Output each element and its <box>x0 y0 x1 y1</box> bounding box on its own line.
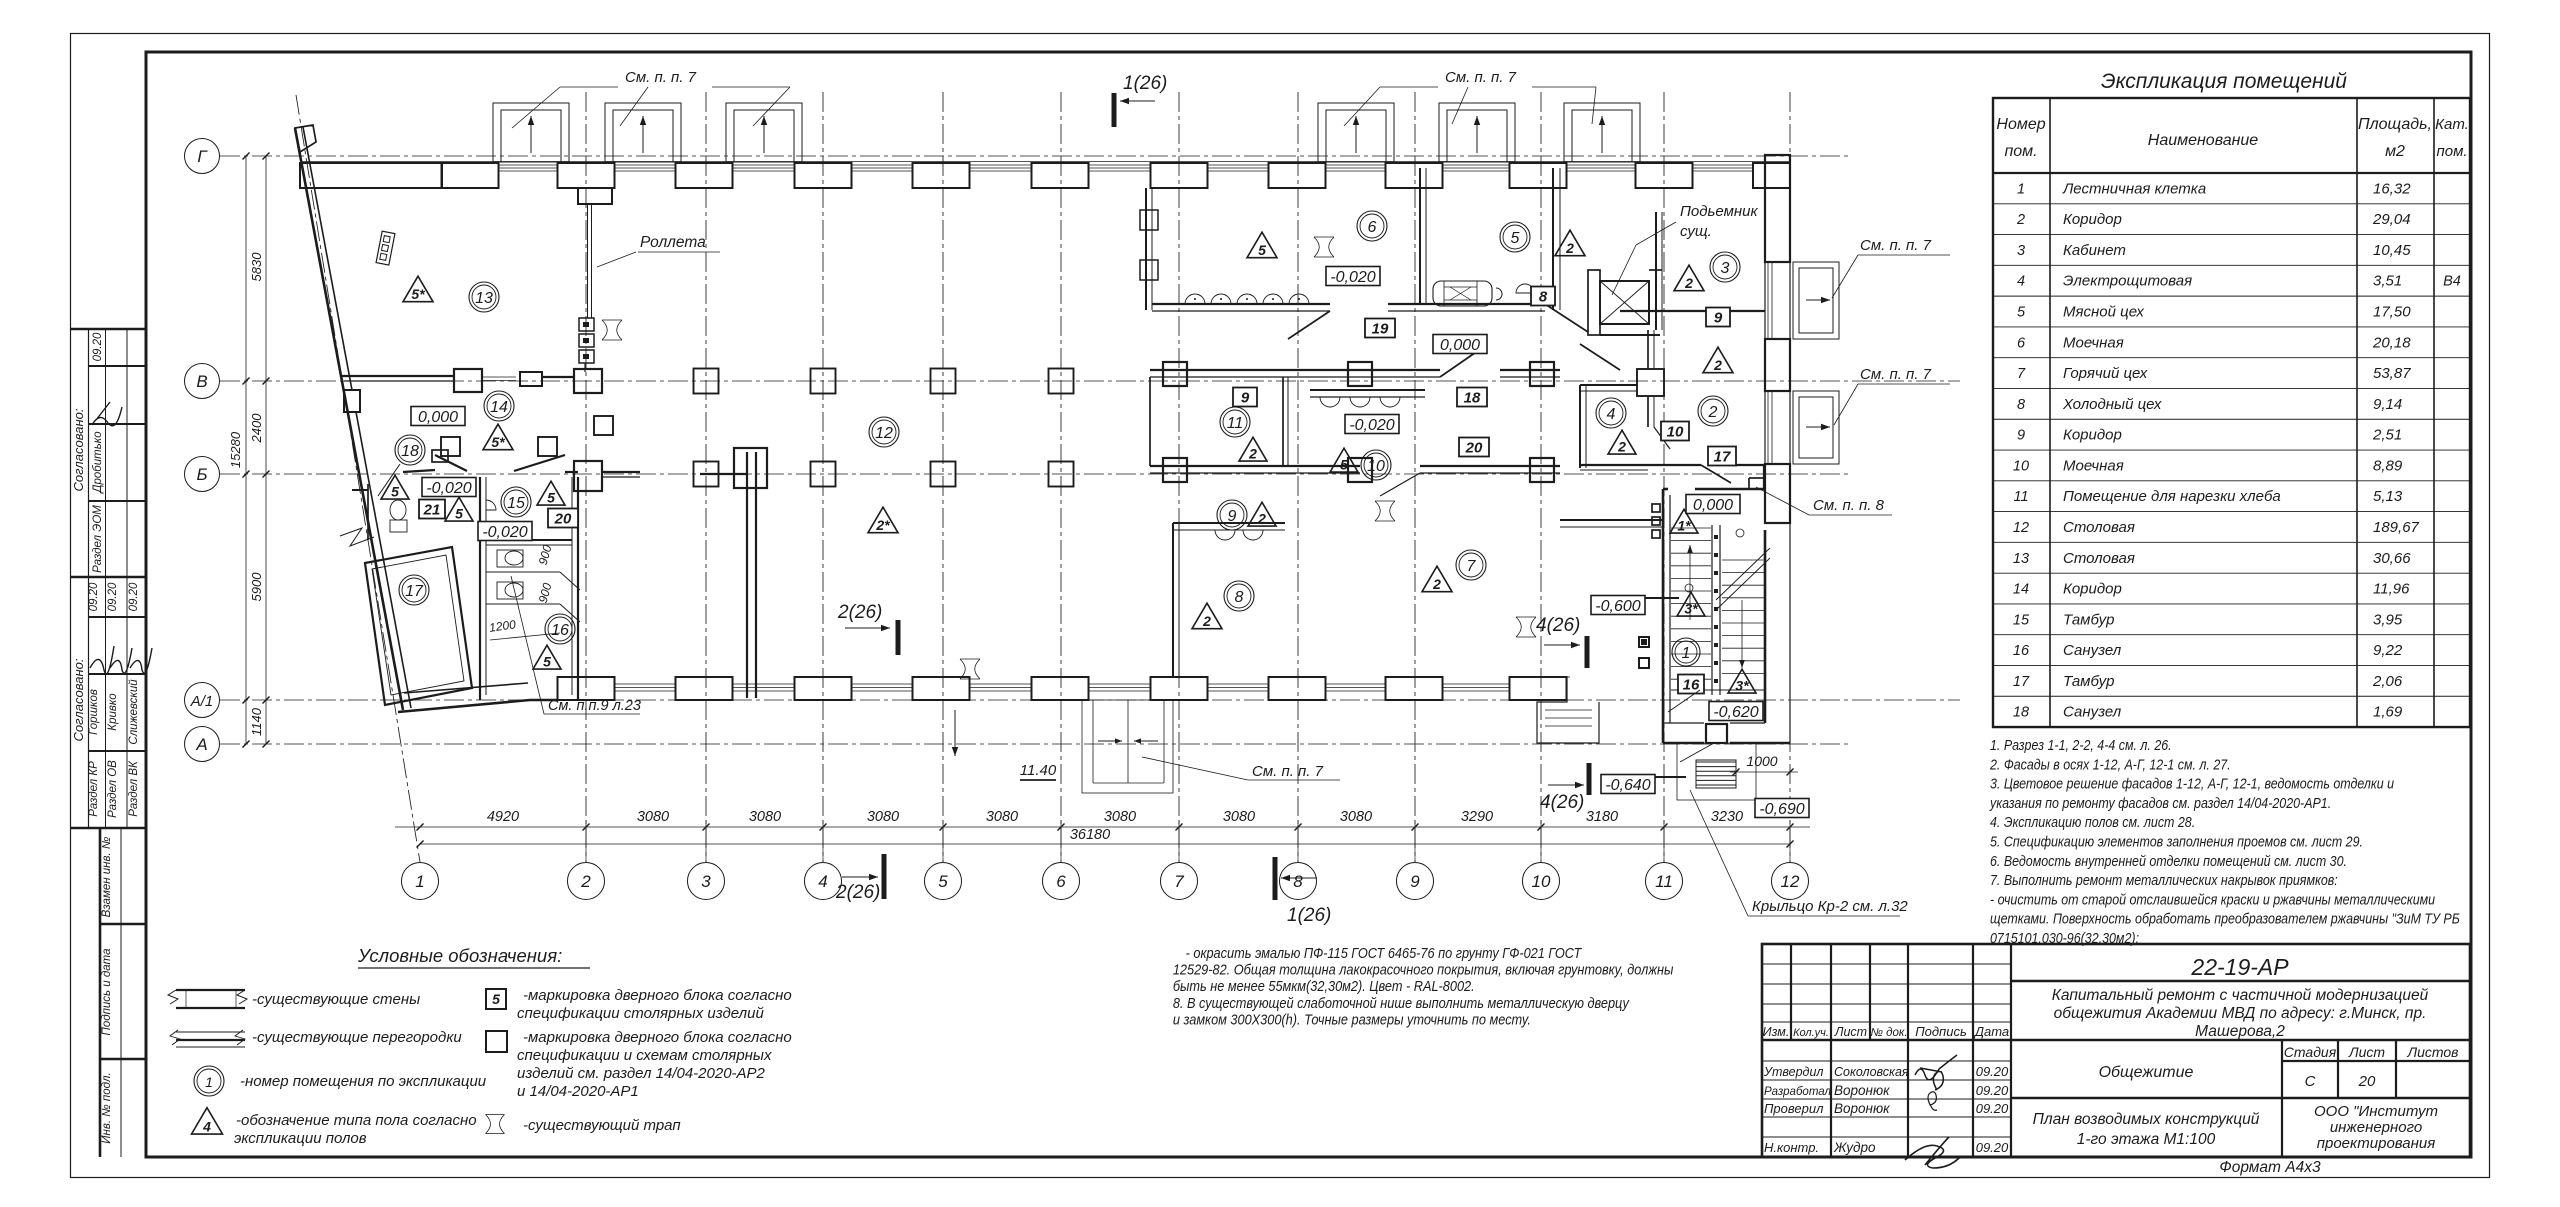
svg-text:9: 9 <box>1241 389 1250 406</box>
svg-text:9: 9 <box>1410 872 1420 891</box>
svg-text:16: 16 <box>551 622 569 639</box>
svg-text:изделий см. раздел 14/04-2020-: изделий см. раздел 14/04-2020-АР2 <box>517 1065 766 1082</box>
svg-text:№ док.: № док. <box>1870 1027 1907 1039</box>
svg-text:2: 2 <box>1565 240 1574 256</box>
svg-text:Раздел ОВ: Раздел ОВ <box>107 760 119 818</box>
svg-text:Условные обозначения:: Условные обозначения: <box>357 945 562 966</box>
svg-text:Крыльцо Кр-2 см. л.32: Крыльцо Кр-2 см. л.32 <box>1752 898 1908 915</box>
svg-text:2(26): 2(26) <box>835 882 880 903</box>
svg-text:0,000: 0,000 <box>1440 337 1480 354</box>
svg-text:Помещение для нарезки хлеба: Помещение для нарезки хлеба <box>2063 488 2281 505</box>
svg-text:2: 2 <box>1617 439 1626 455</box>
svg-text:17,50: 17,50 <box>2373 304 2411 321</box>
svg-text:4920: 4920 <box>487 809 519 825</box>
svg-text:2: 2 <box>1248 446 1257 462</box>
svg-text:-0,020: -0,020 <box>1349 417 1394 434</box>
svg-text:5: 5 <box>938 872 948 891</box>
svg-text:Воронюк: Воронюк <box>1834 1083 1890 1098</box>
svg-text:-обозначение типа пола согласн: -обозначение типа пола согласно <box>236 1112 477 1129</box>
svg-text:13: 13 <box>475 290 493 307</box>
svg-text:В4: В4 <box>2443 274 2461 290</box>
svg-text:Утвердил: Утвердил <box>1763 1065 1823 1079</box>
svg-text:3080: 3080 <box>1340 809 1372 825</box>
svg-text:См. п. п. 7: См. п. п. 7 <box>625 69 697 86</box>
svg-text:Санузел: Санузел <box>2063 704 2122 721</box>
svg-text:Подпись и дата: Подпись и дата <box>101 949 113 1036</box>
svg-text:20,18: 20,18 <box>2372 334 2411 351</box>
svg-text:3080: 3080 <box>867 809 899 825</box>
svg-text:8: 8 <box>1539 288 1548 305</box>
svg-text:1: 1 <box>1682 645 1691 662</box>
svg-text:См. п. п. 7: См. п. п. 7 <box>1860 366 1932 383</box>
svg-text:План возводимых конструкций: План возводимых конструкций <box>2033 1111 2260 1128</box>
svg-text:7: 7 <box>1174 872 1184 891</box>
svg-text:3290: 3290 <box>1461 809 1493 825</box>
svg-text:10: 10 <box>1367 458 1385 475</box>
svg-text:1140: 1140 <box>249 707 264 736</box>
svg-text:2400: 2400 <box>249 413 264 444</box>
svg-text:4(26): 4(26) <box>1540 792 1584 813</box>
svg-text:17: 17 <box>2013 674 2030 690</box>
svg-text:2(26): 2(26) <box>837 602 882 623</box>
svg-text:5: 5 <box>1511 230 1520 247</box>
svg-text:8,89: 8,89 <box>2373 457 2403 474</box>
svg-text:4: 4 <box>818 872 827 891</box>
svg-text:09.20: 09.20 <box>1976 1140 2009 1155</box>
svg-text:Машерова,2: Машерова,2 <box>2195 1023 2285 1040</box>
svg-text:- очистить от старой отслаивше: - очистить от старой отслаившейся краски… <box>1990 890 2435 907</box>
svg-text:Общежитие: Общежитие <box>2099 1064 2194 1081</box>
svg-text:10,45: 10,45 <box>2373 242 2411 259</box>
svg-text:-0,020: -0,020 <box>426 480 471 497</box>
svg-text:Согласовано:: Согласовано: <box>71 658 86 741</box>
svg-text:Кривко: Кривко <box>107 693 119 731</box>
svg-text:3: 3 <box>2017 243 2025 259</box>
svg-text:4: 4 <box>202 1118 211 1134</box>
svg-text:инженерного: инженерного <box>2330 1119 2422 1136</box>
svg-text:Подпись: Подпись <box>1915 1024 1967 1039</box>
svg-text:В: В <box>196 372 207 391</box>
svg-text:2: 2 <box>1257 511 1266 527</box>
svg-text:11: 11 <box>1227 415 1244 432</box>
svg-text:Раздел ЭОМ: Раздел ЭОМ <box>92 505 104 573</box>
svg-text:и 14/04-2020-АР1: и 14/04-2020-АР1 <box>517 1083 639 1100</box>
svg-text:Тамбур: Тамбур <box>2063 611 2114 628</box>
svg-text:-существующий трап: -существующий трап <box>523 1117 681 1134</box>
svg-text:9: 9 <box>1714 309 1723 326</box>
svg-text:1(26): 1(26) <box>1123 73 1167 94</box>
svg-text:53,87: 53,87 <box>2373 365 2411 382</box>
svg-text:и замком 300X300(h). Точные ра: и замком 300X300(h). Точные размеры уточ… <box>1173 1010 1531 1027</box>
svg-text:9: 9 <box>2017 428 2025 444</box>
svg-text:09.20: 09.20 <box>88 582 100 611</box>
svg-text:18: 18 <box>401 443 419 460</box>
svg-text:3,51: 3,51 <box>2373 273 2402 290</box>
svg-text:5900: 5900 <box>249 572 264 602</box>
svg-text:7: 7 <box>1467 558 1477 575</box>
svg-text:2: 2 <box>1202 613 1211 629</box>
svg-text:4: 4 <box>2017 274 2025 290</box>
svg-text:30,66: 30,66 <box>2373 550 2411 567</box>
svg-text:быть не менее 55мкм(32,30м2).: быть не менее 55мкм(32,30м2). Цвет - RAL… <box>1173 977 1475 994</box>
svg-text:-существующие перегородки: -существующие перегородки <box>252 1029 462 1046</box>
svg-text:-0,620: -0,620 <box>1713 704 1758 721</box>
svg-text:Согласовано:: Согласовано: <box>71 408 86 491</box>
svg-text:20: 20 <box>1465 439 1483 456</box>
svg-text:12: 12 <box>1781 872 1800 891</box>
svg-text:14: 14 <box>490 399 508 416</box>
svg-text:0,000: 0,000 <box>1693 497 1733 514</box>
svg-text:11.40: 11.40 <box>1020 762 1057 779</box>
svg-text:Холодный цех: Холодный цех <box>2062 396 2162 413</box>
svg-text:-маркировка дверного блока сог: -маркировка дверного блока согласно <box>523 987 792 1004</box>
svg-text:Экспликация помещений: Экспликация помещений <box>2101 70 2347 93</box>
svg-text:3: 3 <box>1721 260 1730 277</box>
svg-text:спецификации и схемам столярны: спецификации и схемам столярных <box>517 1047 772 1064</box>
svg-text:Мясной цех: Мясной цех <box>2063 304 2144 321</box>
svg-text:6: 6 <box>1368 219 1377 236</box>
svg-text:5. Спецификацию элементов запо: 5. Спецификацию элементов заполнения про… <box>1990 832 2363 849</box>
svg-text:1: 1 <box>415 872 424 891</box>
svg-text:15: 15 <box>507 495 525 512</box>
svg-text:Воронюк: Воронюк <box>1834 1101 1890 1116</box>
svg-text:С: С <box>2305 1073 2316 1090</box>
svg-text:См. п.п.9 л.23: См. п.п.9 л.23 <box>548 698 641 714</box>
svg-text:- окрасить эмалью ПФ-115 ГОСТ: - окрасить эмалью ПФ-115 ГОСТ 6465-76 по… <box>1186 944 1583 961</box>
svg-text:-номер помещения по экспликаци: -номер помещения по экспликации <box>240 1073 487 1090</box>
svg-text:Б: Б <box>196 465 207 484</box>
svg-text:проектирования: проектирования <box>2317 1135 2436 1152</box>
svg-text:2: 2 <box>1684 275 1693 291</box>
svg-text:3. Цветовое решение фасадов 1-: 3. Цветовое решение фасадов 1-12, А-Г, 1… <box>1990 774 2394 791</box>
svg-text:5: 5 <box>2017 305 2026 321</box>
svg-text:Раздел ВК: Раздел ВК <box>128 760 140 817</box>
svg-text:19: 19 <box>1372 320 1389 337</box>
svg-text:09.20: 09.20 <box>1976 1083 2009 1098</box>
svg-text:Горячий цех: Горячий цех <box>2063 365 2148 382</box>
svg-text:1,69: 1,69 <box>2373 704 2403 721</box>
svg-text:17: 17 <box>405 583 424 600</box>
svg-text:ООО "Институт: ООО "Институт <box>2314 1103 2438 1120</box>
svg-text:8: 8 <box>2017 397 2025 413</box>
svg-text:Санузел: Санузел <box>2063 642 2122 659</box>
svg-text:13: 13 <box>2013 551 2029 567</box>
svg-text:5: 5 <box>1258 242 1266 258</box>
svg-text:12529-82. Общая толщина лакокр: 12529-82. Общая толщина лакокрасочного п… <box>1173 961 1674 978</box>
svg-text:16: 16 <box>1683 676 1700 693</box>
svg-text:Дробитько: Дробитько <box>92 431 104 495</box>
svg-text:09.20: 09.20 <box>92 332 104 361</box>
svg-text:3080: 3080 <box>1104 809 1136 825</box>
svg-text:А/1: А/1 <box>190 693 214 710</box>
svg-text:5: 5 <box>1340 457 1348 473</box>
svg-text:Соколовская: Соколовская <box>1834 1065 1909 1079</box>
svg-text:-существующие стены: -существующие стены <box>252 991 420 1008</box>
svg-text:3080: 3080 <box>986 809 1018 825</box>
svg-text:3080: 3080 <box>749 809 781 825</box>
svg-text:Кабинет: Кабинет <box>2063 242 2126 259</box>
svg-text:3*: 3* <box>1684 601 1698 617</box>
svg-text:5: 5 <box>455 506 463 522</box>
svg-text:20: 20 <box>554 510 572 527</box>
svg-text:2*: 2* <box>875 517 890 533</box>
svg-text:189,67: 189,67 <box>2373 519 2420 536</box>
svg-text:Лист: Лист <box>1834 1025 1867 1039</box>
svg-text:3*: 3* <box>1735 678 1749 694</box>
svg-text:общежития Академии МВД по адре: общежития Академии МВД по адресу: г.Минс… <box>2054 1005 2427 1022</box>
svg-text:0,000: 0,000 <box>418 409 458 426</box>
svg-text:1000: 1000 <box>1746 753 1777 769</box>
svg-text:Разработал: Разработал <box>1764 1086 1832 1098</box>
svg-text:Капитальный ремонт с частичной: Капитальный ремонт с частичной модерниза… <box>2052 987 2429 1004</box>
svg-text:5830: 5830 <box>249 252 264 282</box>
svg-text:5: 5 <box>492 991 500 1007</box>
svg-text:Стадия: Стадия <box>2284 1044 2337 1060</box>
svg-text:8: 8 <box>1293 872 1303 891</box>
svg-text:2,06: 2,06 <box>2372 673 2403 690</box>
svg-text:9,22: 9,22 <box>2373 642 2403 659</box>
svg-text:1*: 1* <box>1677 518 1691 534</box>
svg-text:-0,020: -0,020 <box>482 524 527 541</box>
svg-text:Подьемник: Подьемник <box>1680 203 1758 220</box>
svg-text:6. Ведомость внутренней отделк: 6. Ведомость внутренней отделки помещени… <box>1990 852 2347 869</box>
svg-text:Моечная: Моечная <box>2063 457 2124 474</box>
svg-text:14: 14 <box>2013 582 2029 598</box>
svg-text:Коридор: Коридор <box>2063 581 2122 598</box>
svg-text:пом.: пом. <box>2436 143 2467 160</box>
svg-text:щетками. Поверхность обработат: щетками. Поверхность обработать преобраз… <box>1990 909 2460 926</box>
svg-text:12: 12 <box>2013 520 2029 536</box>
svg-text:м2: м2 <box>2385 143 2405 160</box>
svg-text:09.20: 09.20 <box>1976 1101 2009 1116</box>
svg-text:-0,600: -0,600 <box>1595 598 1640 615</box>
svg-text:18: 18 <box>2013 705 2029 721</box>
svg-text:3230: 3230 <box>1711 809 1743 825</box>
svg-text:-0,020: -0,020 <box>1330 269 1375 286</box>
svg-text:-0,690: -0,690 <box>1759 801 1804 818</box>
svg-text:12: 12 <box>875 425 893 442</box>
svg-text:А: А <box>195 735 207 754</box>
svg-text:15280: 15280 <box>228 431 243 468</box>
svg-text:20: 20 <box>2358 1073 2376 1090</box>
svg-text:4. Экспликацию полов см. лист: 4. Экспликацию полов см. лист 28. <box>1990 813 2195 830</box>
svg-text:Кат.: Кат. <box>2435 116 2469 133</box>
svg-text:2. Фасады в осях 1-12, А-Г, 12: 2. Фасады в осях 1-12, А-Г, 12-1 см. л. … <box>1989 755 2231 772</box>
svg-text:-0,640: -0,640 <box>1605 777 1650 794</box>
svg-text:Листов: Листов <box>2407 1044 2459 1060</box>
svg-text:5: 5 <box>547 490 555 506</box>
svg-text:2: 2 <box>580 872 591 891</box>
svg-text:См. п. п. 7: См. п. п. 7 <box>1860 237 1932 254</box>
svg-text:2: 2 <box>1713 357 1722 373</box>
svg-text:Наименование: Наименование <box>2148 132 2259 149</box>
svg-text:экспликации полов: экспликации полов <box>234 1130 367 1147</box>
svg-text:Лист: Лист <box>2348 1044 2385 1060</box>
svg-text:Столовая: Столовая <box>2063 519 2135 536</box>
svg-text:09.20: 09.20 <box>107 582 119 611</box>
svg-text:6: 6 <box>2017 335 2026 351</box>
svg-text:11: 11 <box>1655 872 1673 891</box>
svg-text:3180: 3180 <box>1586 809 1618 825</box>
svg-text:Жудро: Жудро <box>1833 1140 1876 1155</box>
svg-text:указания по ремонту фасадов с: указания по ремонту фасадов см. раздел 1… <box>1989 794 2331 811</box>
svg-text:Номер: Номер <box>1996 116 2045 133</box>
svg-text:2: 2 <box>2016 212 2025 228</box>
svg-text:Дата: Дата <box>1973 1024 2009 1039</box>
svg-text:2: 2 <box>1432 576 1441 592</box>
svg-text:Проверил: Проверил <box>1764 1101 1824 1116</box>
svg-text:Тамбур: Тамбур <box>2063 673 2114 690</box>
svg-text:Столовая: Столовая <box>2063 550 2135 567</box>
svg-text:Моечная: Моечная <box>2063 334 2124 351</box>
svg-text:Горшков: Горшков <box>88 689 100 735</box>
svg-text:22-19-АР: 22-19-АР <box>2190 954 2289 980</box>
svg-text:1(26): 1(26) <box>1287 905 1331 926</box>
svg-text:3080: 3080 <box>1223 809 1255 825</box>
svg-text:6: 6 <box>1056 872 1066 891</box>
svg-text:29,04: 29,04 <box>2372 211 2411 228</box>
svg-text:См. п. п. 8: См. п. п. 8 <box>1813 497 1885 514</box>
svg-text:спецификации столярных изделий: спецификации столярных изделий <box>517 1005 764 1022</box>
svg-text:18: 18 <box>1464 389 1481 406</box>
svg-text:Кол.уч.: Кол.уч. <box>1793 1027 1829 1039</box>
svg-text:1: 1 <box>2017 181 2025 197</box>
svg-text:Изм.: Изм. <box>1763 1025 1790 1039</box>
svg-text:См. п. п. 7: См. п. п. 7 <box>1252 763 1324 780</box>
svg-text:5: 5 <box>391 484 399 500</box>
svg-text:Формат А4х3: Формат А4х3 <box>2219 1159 2321 1176</box>
svg-text:9,14: 9,14 <box>2373 396 2402 413</box>
svg-text:10: 10 <box>1532 872 1551 891</box>
svg-text:5: 5 <box>543 654 551 670</box>
svg-text:-маркировка дверного блока сог: -маркировка дверного блока согласно <box>523 1029 792 1046</box>
svg-text:10: 10 <box>1667 423 1684 440</box>
svg-text:Коридор: Коридор <box>2063 211 2122 228</box>
svg-text:4(26): 4(26) <box>1536 615 1580 636</box>
svg-text:Роллета: Роллета <box>640 234 706 251</box>
svg-text:См. п. п. 7: См. п. п. 7 <box>1445 69 1517 86</box>
svg-text:4: 4 <box>1607 406 1616 423</box>
svg-text:Инв. № подл.: Инв. № подл. <box>101 1072 113 1143</box>
svg-text:2,51: 2,51 <box>2372 427 2402 444</box>
svg-text:36180: 36180 <box>1070 827 1110 843</box>
svg-text:5,13: 5,13 <box>2373 488 2403 505</box>
svg-text:3080: 3080 <box>637 809 669 825</box>
svg-text:16,32: 16,32 <box>2373 180 2411 197</box>
svg-text:15: 15 <box>2013 612 2030 628</box>
svg-text:сущ.: сущ. <box>1680 223 1712 240</box>
svg-text:5*: 5* <box>411 286 425 302</box>
svg-text:11: 11 <box>2013 489 2028 505</box>
svg-text:1. Разрез 1-1, 2-2, 4-4 см. л.: 1. Разрез 1-1, 2-2, 4-4 см. л. 26. <box>1990 736 2172 753</box>
svg-text:3: 3 <box>701 872 711 891</box>
svg-text:8: 8 <box>1235 589 1244 606</box>
svg-text:Площадь,: Площадь, <box>2358 116 2432 133</box>
svg-text:17: 17 <box>1714 448 1731 465</box>
svg-text:3,95: 3,95 <box>2373 611 2403 628</box>
svg-text:Н.контр.: Н.контр. <box>1764 1140 1819 1155</box>
svg-text:10: 10 <box>2013 458 2029 474</box>
svg-text:7: 7 <box>2017 366 2026 382</box>
svg-text:5*: 5* <box>491 434 505 450</box>
svg-text:Электрощитовая: Электрощитовая <box>2063 273 2192 290</box>
svg-text:Слижевский: Слижевский <box>128 679 140 745</box>
svg-text:16: 16 <box>2013 643 2030 659</box>
svg-text:Взамен инв. №: Взамен инв. № <box>101 836 113 917</box>
svg-text:21: 21 <box>423 501 441 518</box>
svg-text:9: 9 <box>1228 508 1237 525</box>
svg-text:2: 2 <box>1708 404 1718 421</box>
svg-text:Лестничная клетка: Лестничная клетка <box>2062 180 2206 197</box>
svg-text:8. В существующей слаботочной: 8. В существующей слаботочной нише выпол… <box>1173 994 1630 1011</box>
svg-text:Коридор: Коридор <box>2063 427 2122 444</box>
svg-text:7. Выполнить ремонт металличес: 7. Выполнить ремонт металлических накрыв… <box>1990 871 2338 888</box>
svg-text:1: 1 <box>205 1074 213 1090</box>
svg-text:1-го этажа М1:100: 1-го этажа М1:100 <box>2077 1131 2216 1148</box>
svg-text:09.20: 09.20 <box>128 582 140 611</box>
svg-text:пом.: пом. <box>2004 143 2037 160</box>
svg-text:Раздел КР: Раздел КР <box>88 761 100 817</box>
svg-text:09.20: 09.20 <box>1976 1064 2009 1079</box>
svg-text:11,96: 11,96 <box>2373 581 2410 598</box>
